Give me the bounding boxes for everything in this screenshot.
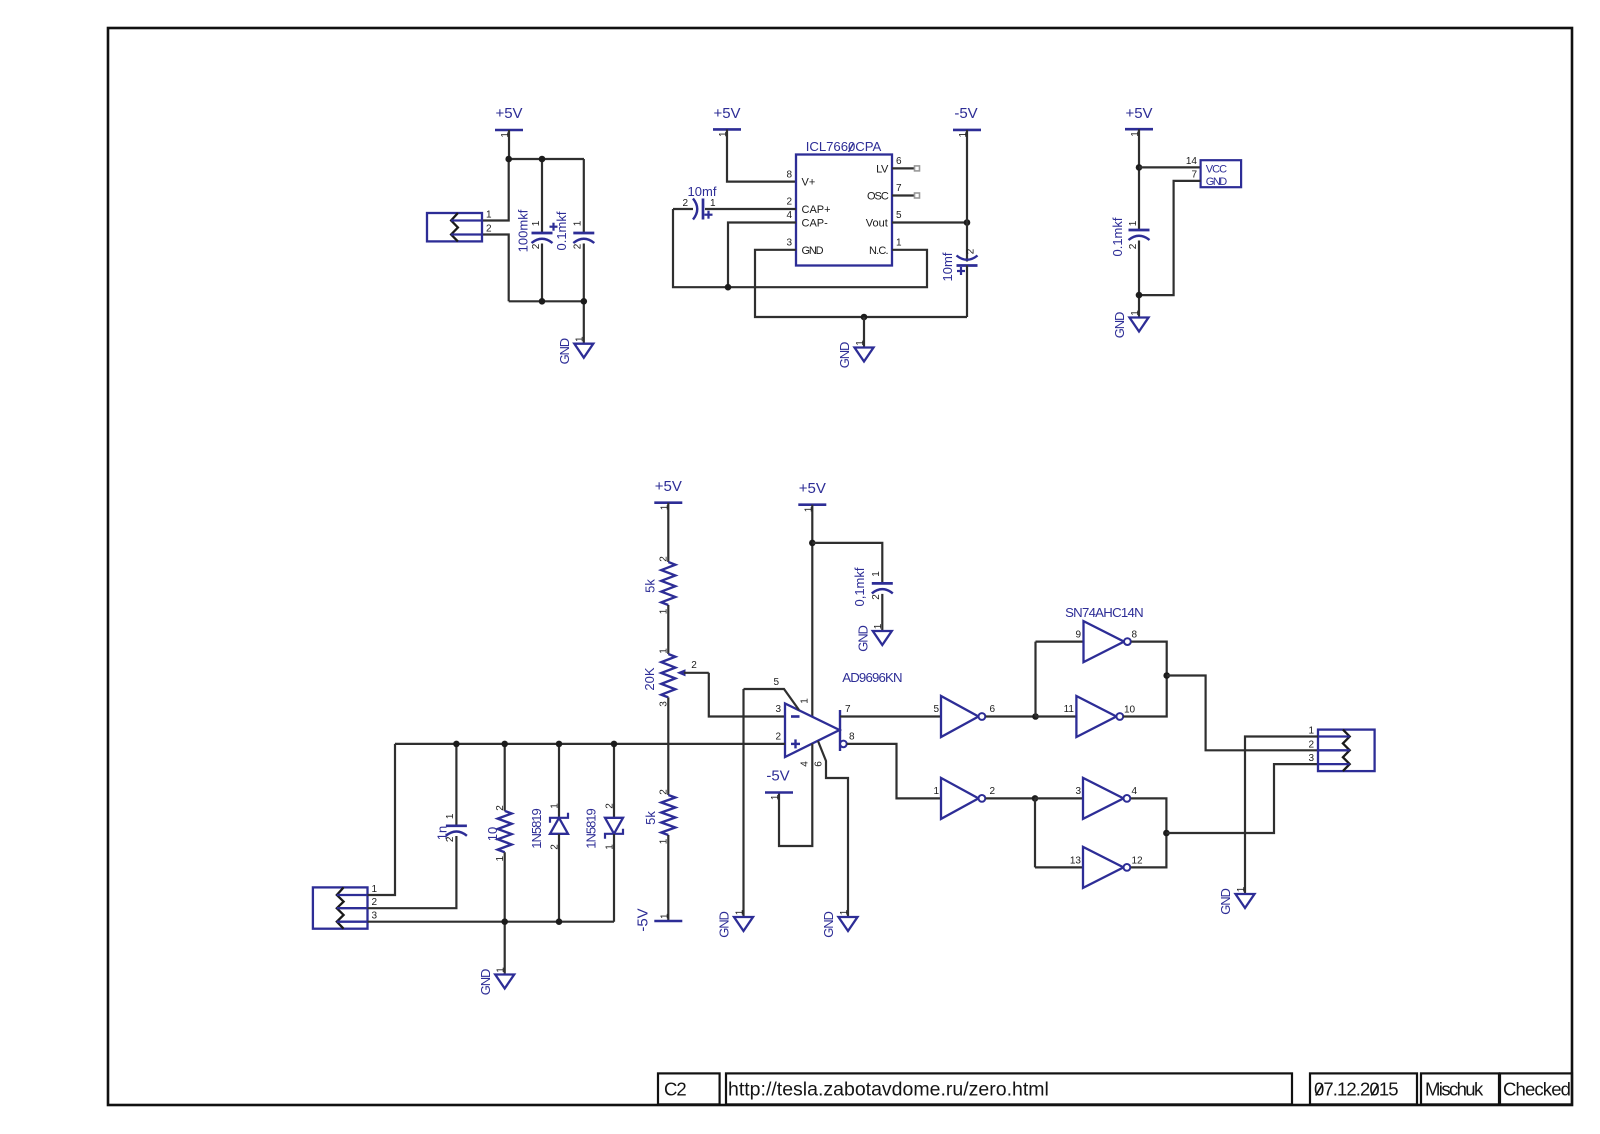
svg-text:2: 2 [573, 243, 584, 249]
svg-text:1: 1 [1130, 310, 1141, 316]
svg-text:6: 6 [896, 156, 902, 167]
svg-text:10mf: 10mf [688, 184, 717, 199]
svg-text:10mf: 10mf [940, 252, 955, 281]
svg-text:5: 5 [933, 704, 939, 715]
svg-text:10: 10 [485, 827, 500, 841]
svg-text:1: 1 [710, 198, 716, 209]
svg-text:2: 2 [604, 803, 615, 809]
svg-text:Mischuk: Mischuk [1425, 1079, 1484, 1100]
svg-text:2: 2 [486, 224, 492, 235]
svg-text:GND: GND [1112, 312, 1127, 338]
svg-text:2: 2 [990, 786, 996, 797]
svg-text:1: 1 [486, 210, 492, 221]
svg-text:VCC: VCC [1206, 164, 1227, 176]
svg-text:Checked: Checked [1503, 1079, 1571, 1100]
svg-text:1: 1 [575, 336, 586, 342]
svg-text:6: 6 [814, 761, 825, 767]
svg-text:SN74AHC14N: SN74AHC14N [1065, 605, 1143, 620]
svg-text:1: 1 [604, 844, 615, 850]
svg-text:1: 1 [800, 698, 811, 704]
svg-text:5: 5 [896, 210, 902, 221]
svg-text:1: 1 [573, 220, 584, 226]
svg-text:1: 1 [770, 794, 781, 800]
svg-text:1N5819: 1N5819 [529, 808, 544, 848]
svg-text:2: 2 [372, 897, 378, 908]
svg-text:-5V: -5V [954, 105, 977, 122]
svg-text:ICL7660CPA: ICL7660CPA [806, 139, 882, 154]
svg-text:8: 8 [1132, 630, 1138, 641]
svg-text:2: 2 [445, 836, 456, 842]
svg-text:8: 8 [786, 170, 792, 181]
svg-text:+5V: +5V [495, 105, 522, 122]
svg-text:5: 5 [773, 677, 779, 688]
svg-text:LV: LV [876, 163, 889, 175]
svg-text:2: 2 [966, 248, 977, 254]
svg-text:GND: GND [837, 342, 852, 368]
svg-text:2: 2 [1128, 243, 1139, 249]
svg-text:V+: V+ [802, 177, 816, 189]
svg-text:7: 7 [896, 183, 902, 194]
svg-text:1: 1 [896, 238, 902, 249]
svg-text:3: 3 [1308, 753, 1314, 764]
svg-text:7: 7 [1191, 170, 1197, 181]
svg-text:1: 1 [659, 913, 670, 919]
svg-text:3: 3 [372, 911, 378, 922]
svg-text:GND: GND [478, 969, 493, 995]
svg-text:10: 10 [1124, 705, 1136, 716]
svg-text:AD9696KN: AD9696KN [842, 670, 902, 685]
svg-text:CAP-: CAP- [802, 218, 829, 230]
svg-text:0,1mkf: 0,1mkf [852, 567, 867, 606]
svg-text:GND: GND [557, 338, 572, 364]
svg-text:-5V: -5V [766, 768, 789, 785]
svg-text:2: 2 [691, 660, 697, 671]
svg-text:http://tesla.zabotavdome.ru/ze: http://tesla.zabotavdome.ru/zero.html [728, 1079, 1049, 1101]
svg-text:0.1mkf: 0.1mkf [1110, 217, 1125, 256]
svg-text:3: 3 [786, 238, 792, 249]
svg-text:4: 4 [800, 761, 811, 767]
svg-text:0.1mkf: 0.1mkf [554, 211, 569, 250]
svg-text:1: 1 [372, 884, 378, 895]
svg-text:2: 2 [682, 198, 688, 209]
svg-text:1: 1 [1128, 220, 1139, 226]
svg-text:1: 1 [734, 909, 745, 915]
svg-text:8: 8 [849, 732, 855, 743]
svg-text:GND: GND [1206, 176, 1228, 188]
svg-text:100mkf: 100mkf [516, 209, 531, 252]
svg-text:1: 1 [496, 967, 507, 973]
svg-text:1: 1 [871, 571, 882, 577]
svg-text:1: 1 [1308, 726, 1314, 737]
svg-text:N.C.: N.C. [869, 245, 889, 257]
svg-text:C2: C2 [664, 1079, 686, 1100]
svg-text:2: 2 [495, 805, 506, 811]
svg-text:2: 2 [549, 844, 560, 850]
svg-text:1: 1 [855, 340, 866, 346]
svg-text:1N5819: 1N5819 [583, 808, 598, 848]
svg-text:+5V: +5V [1125, 105, 1152, 122]
svg-text:1: 1 [933, 786, 939, 797]
svg-text:13: 13 [1070, 856, 1082, 867]
svg-text:1: 1 [659, 648, 670, 654]
svg-text:3: 3 [1075, 786, 1081, 797]
svg-text:2: 2 [659, 556, 670, 562]
svg-text:5k: 5k [643, 811, 658, 825]
svg-text:1: 1 [445, 813, 456, 819]
svg-text:1: 1 [531, 220, 542, 226]
svg-text:2: 2 [786, 197, 792, 208]
svg-text:+5V: +5V [655, 478, 682, 495]
svg-text:2: 2 [659, 789, 670, 795]
svg-text:7: 7 [845, 704, 851, 715]
svg-text:+5V: +5V [799, 480, 826, 497]
svg-text:9: 9 [1075, 630, 1081, 641]
svg-text:1: 1 [873, 623, 884, 629]
svg-text:2: 2 [871, 594, 882, 600]
svg-text:1: 1 [839, 909, 850, 915]
svg-text:12: 12 [1132, 856, 1144, 867]
svg-text:14: 14 [1186, 156, 1198, 167]
svg-text:2: 2 [775, 732, 781, 743]
svg-text:11: 11 [1064, 704, 1075, 715]
svg-text:CAP+: CAP+ [802, 204, 831, 216]
svg-text:+5V: +5V [713, 105, 740, 122]
svg-text:3: 3 [775, 704, 781, 715]
svg-text:GND: GND [821, 912, 836, 938]
svg-text:6: 6 [990, 704, 996, 715]
svg-text:2: 2 [1308, 739, 1314, 750]
svg-text:4: 4 [1132, 786, 1138, 797]
svg-text:20K: 20K [642, 667, 657, 690]
svg-text:1: 1 [1236, 886, 1247, 892]
svg-text:GND: GND [802, 245, 824, 257]
svg-text:GND: GND [1218, 889, 1233, 915]
svg-text:2: 2 [531, 243, 542, 249]
svg-text:07.12.2015: 07.12.2015 [1314, 1079, 1398, 1100]
svg-text:OSC: OSC [867, 191, 889, 203]
svg-text:1: 1 [549, 803, 560, 809]
svg-text:GND: GND [855, 626, 870, 652]
svg-text:Vout: Vout [866, 218, 888, 230]
svg-text:4: 4 [786, 210, 792, 221]
svg-text:5k: 5k [642, 579, 657, 593]
svg-text:-5V: -5V [634, 908, 651, 931]
svg-text:GND: GND [717, 912, 732, 938]
